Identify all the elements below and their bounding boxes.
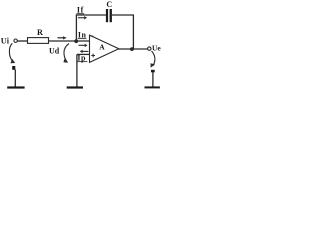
- capacitor C plate 1: [106, 9, 108, 22]
- wire feedback vertical right: [132, 15, 134, 49]
- wire input left: [17, 40, 28, 42]
- wire left ground stem: [14, 70, 16, 87]
- wire top left of capacitor: [76, 14, 106, 16]
- svg-text:Ui: Ui: [1, 37, 10, 46]
- arrow input current: [58, 36, 67, 39]
- wire resistor to op-amp minus input: [49, 40, 90, 42]
- arrow If: [78, 16, 87, 20]
- resistor R: [28, 38, 49, 44]
- minus sign: [91, 36, 94, 37]
- wire top right of capacitor: [112, 14, 134, 16]
- right ground bar: [145, 86, 160, 88]
- underline If: [77, 12, 85, 15]
- voltage arrow Ud: [63, 44, 69, 63]
- wire right ground stem: [152, 72, 154, 87]
- svg-text:R: R: [37, 28, 43, 37]
- op-amp A: [90, 35, 119, 62]
- plus sign: [91, 54, 95, 58]
- arrow In: [79, 44, 88, 48]
- wire plus input: [77, 53, 90, 55]
- svg-text:C: C: [106, 0, 112, 9]
- left ground pad: [12, 66, 15, 70]
- underline In: [78, 37, 87, 40]
- node junction at inverting input: [74, 39, 78, 43]
- left ground bar: [7, 86, 24, 88]
- middle ground bar: [67, 86, 83, 88]
- underline Ip: [77, 60, 87, 63]
- svg-text:A: A: [99, 42, 105, 51]
- node junction at output: [130, 47, 134, 51]
- wire plus input down to ground: [76, 54, 78, 86]
- voltage arrow Ue: [151, 51, 156, 68]
- capacitor C plate 2: [110, 9, 112, 22]
- terminal Ue: [148, 47, 151, 50]
- svg-text:Ue: Ue: [152, 43, 161, 52]
- wire feedback vertical left: [75, 15, 77, 41]
- voltage arrow Ui: [9, 43, 15, 63]
- svg-text:Ud: Ud: [49, 46, 60, 55]
- terminal Ui: [14, 39, 17, 42]
- wire output: [119, 48, 148, 50]
- right ground pad: [151, 70, 155, 73]
- arrow Ip: [80, 50, 89, 54]
